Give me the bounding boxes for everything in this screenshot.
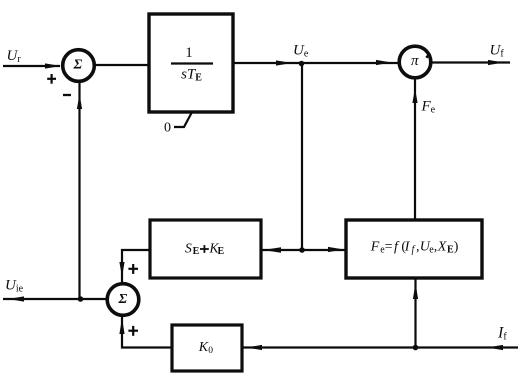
arrow into multiplier — [376, 60, 392, 65]
svg-text:Σ: Σ — [117, 292, 127, 307]
node on Ue feed line — [299, 247, 305, 253]
svg-text:1: 1 — [185, 45, 193, 61]
multiplier PI — [399, 46, 431, 78]
node on If line — [413, 345, 419, 351]
wire If branch to Fe block — [414, 278, 416, 348]
arrow into SE+KE block — [263, 247, 281, 252]
wire Ur input — [3, 65, 60, 67]
svg-text:): ) — [454, 240, 459, 255]
plus sign at S1 — [47, 78, 56, 80]
block 1/sTE — [149, 14, 233, 112]
arrow Uie output — [8, 296, 24, 301]
wire S1 to block TE — [94, 64, 149, 66]
summing junction S2 — [107, 284, 139, 316]
block K0 — [172, 325, 242, 371]
minus sign at S1 — [63, 94, 71, 96]
wire Fe vertical to multiplier — [414, 78, 416, 220]
tick mark inside multiplier circle — [426, 53, 430, 57]
wire K0 output to summer S2 — [122, 316, 172, 348]
svg-text:F: F — [370, 240, 380, 255]
svg-text:E: E — [218, 246, 225, 257]
wire block TE to multiplier — [233, 62, 400, 64]
svg-text:S: S — [185, 241, 192, 256]
arrow into summer S1 — [45, 63, 61, 68]
arrow down into summer S2 — [119, 262, 124, 277]
svg-text:π: π — [411, 53, 419, 69]
arrow into Fe function block — [328, 247, 344, 252]
svg-text:E: E — [193, 246, 200, 257]
wire S2 to Uie output — [3, 298, 107, 300]
plus sign S2 bottom — [128, 330, 138, 332]
node on Uie line — [78, 296, 84, 302]
svg-text:Σ: Σ — [72, 57, 82, 72]
svg-text:,: , — [434, 240, 438, 255]
svg-text:0: 0 — [208, 346, 213, 356]
wire multiplier to Uf output — [431, 61, 510, 63]
summing junction S1 — [63, 50, 95, 82]
block Fe function — [346, 220, 482, 278]
arrow Fe into multiplier — [412, 88, 417, 103]
arrow If input — [487, 345, 503, 350]
node Ue junction — [299, 61, 305, 67]
wire feedback vertical to S1 — [78, 83, 80, 299]
svg-text:0: 0 — [164, 121, 171, 136]
arrow up into S1 — [77, 94, 82, 109]
arrow Uf output — [488, 60, 504, 65]
wire If input line — [242, 346, 518, 348]
arrow on wire toward multiplier — [276, 60, 292, 65]
wire Ue feed to blocks — [261, 249, 346, 251]
plus sign S2 top — [128, 268, 138, 270]
block SE+KE — [150, 220, 261, 278]
svg-text:K: K — [198, 340, 209, 355]
arrow up into S2 — [119, 318, 124, 334]
arrow up into Fe block — [413, 283, 418, 299]
svg-text:X: X — [437, 240, 447, 255]
wire SE+KE output to summer S2 — [122, 250, 150, 283]
wire Ue vertical branch — [301, 64, 303, 251]
arrow into K0 — [246, 345, 262, 350]
svg-text:=: = — [385, 240, 393, 255]
